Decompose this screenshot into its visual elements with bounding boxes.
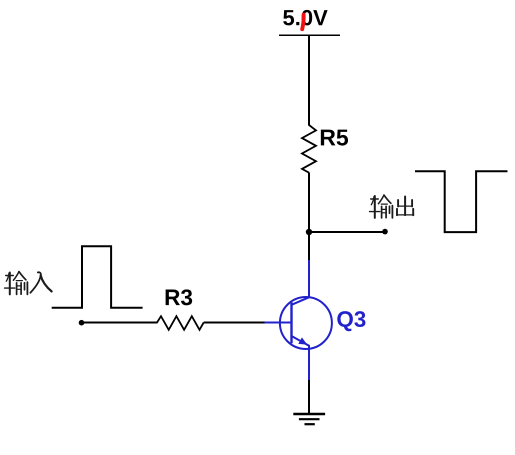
node output junction <box>306 229 312 235</box>
resistor R5 <box>302 125 316 173</box>
wire emitter to ground <box>308 380 310 413</box>
wire collector node to Q3 <box>308 232 310 260</box>
input waveform <box>52 246 143 308</box>
label 输入 (input) <box>5 272 52 295</box>
ground <box>293 414 325 424</box>
node input terminal <box>79 320 85 326</box>
label Q3 <box>337 311 365 331</box>
node output terminal <box>382 229 388 235</box>
label 输出 (output) <box>370 195 414 218</box>
transistor Q3 <box>265 260 332 380</box>
wire output node to terminal <box>309 231 385 233</box>
wire input terminal to R3 <box>82 322 158 324</box>
wire power to R5 <box>308 35 310 125</box>
label 5.0V <box>283 10 327 26</box>
red cursor mark <box>302 15 303 30</box>
resistor R3 <box>157 316 204 330</box>
wire R3 to Q3 base <box>204 322 265 324</box>
output waveform <box>415 171 508 232</box>
power rail bar 5.0V <box>279 34 340 36</box>
label R5 <box>321 130 348 146</box>
label R3 <box>166 289 193 305</box>
wire R5 to output node <box>308 173 310 233</box>
